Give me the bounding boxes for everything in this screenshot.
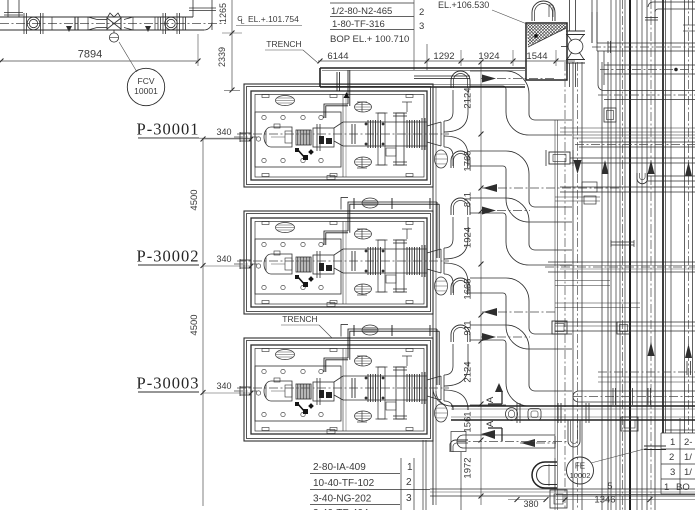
TRENCH label with leader (top) <box>265 39 318 63</box>
skid edge pads <box>262 222 269 225</box>
equipment box with cross-hatch wedge (top) <box>492 10 604 80</box>
double-rect fitting at (604,108) <box>604 108 616 122</box>
orifice flange on V7 <box>644 446 666 450</box>
svg-text:1665: 1665 <box>463 278 474 299</box>
svg-text:FE: FE <box>575 462 585 471</box>
instrument bubble FE 10002 <box>567 448 649 484</box>
trench outline around skid <box>244 338 433 441</box>
hatched drain oval on trench run <box>362 325 378 335</box>
drain valve handles (dark) <box>295 148 314 160</box>
valve V2 flanged <box>158 13 186 34</box>
pump baseplate <box>255 112 341 167</box>
pump skid box P-30003 <box>251 345 427 434</box>
U-bend pipe (south, opening right) <box>532 458 557 492</box>
svg-text:A: A <box>485 420 496 427</box>
vertical spool with end flanges <box>393 367 407 419</box>
pipe rack vertical run x=573..582 <box>573 62 582 510</box>
rack thin lines y=135/138 <box>573 135 695 138</box>
T-supports <box>357 102 412 168</box>
pipe rack heavy line x=663 <box>662 0 664 433</box>
discharge spool pipe <box>237 249 449 273</box>
expansion joint (multi-ring) <box>365 120 384 148</box>
pump baseplate <box>255 366 341 421</box>
valve V1 flanged (top-left run) <box>24 13 43 34</box>
vertical line x=461 bottom <box>460 452 462 510</box>
svg-text:EL.+.101.754: EL.+.101.754 <box>248 14 299 24</box>
svg-text:3-40-NG-202: 3-40-NG-202 <box>313 494 372 505</box>
svg-text:340: 340 <box>216 254 231 264</box>
elbow up at end of run <box>189 0 216 30</box>
svg-text:1765: 1765 <box>463 150 474 171</box>
svg-text:3: 3 <box>670 467 675 478</box>
coupling (hatched) <box>296 257 311 272</box>
T-supports <box>357 356 412 422</box>
header S-pipe skid2 lower -> rack <box>470 278 572 349</box>
svg-text:1292: 1292 <box>433 51 454 62</box>
pipe turndown cap (skid2 lower) <box>451 278 470 295</box>
pipe rack vertical run x=647..655 <box>647 0 655 510</box>
svg-text:1: 1 <box>407 462 413 473</box>
flange group 2 <box>407 247 420 275</box>
svg-text:10-40-TF-102: 10-40-TF-102 <box>313 478 375 489</box>
instrument bubble FCV 10001 <box>119 42 165 106</box>
rack horizontal band y=322..331 <box>555 322 695 331</box>
pipe rack heavy line x=630 <box>629 0 631 510</box>
flow arrow right (gap1) <box>481 207 530 215</box>
svg-text:1561: 1561 <box>463 411 474 432</box>
vent piping riser (dark small-bore) <box>324 70 350 118</box>
pipe turndown cap (skid1 upper) <box>451 71 470 88</box>
flange group 2 <box>407 374 420 402</box>
vertical spool 2 <box>376 113 388 165</box>
svg-text:7894: 7894 <box>78 49 102 61</box>
small box on bottom edge <box>327 430 335 434</box>
svg-text:BO: BO <box>676 482 690 493</box>
internal divider lines <box>342 95 344 178</box>
hatched drain oval at Y-branch <box>435 150 448 168</box>
pipe rack vertical stub x=592..597 (top) <box>592 0 597 43</box>
svg-text:911: 911 <box>463 320 474 335</box>
pump skid box P-30002 <box>251 218 427 307</box>
svg-text:P-30001: P-30001 <box>137 120 200 139</box>
motor M3 <box>264 378 292 401</box>
drain valve handles (dark) <box>295 275 314 287</box>
trench channel top (horizontal) <box>320 68 525 87</box>
capped pipe y=435..448 below skid3 <box>451 432 568 452</box>
svg-text:1/2-80-N2-465: 1/2-80-N2-465 <box>331 6 392 17</box>
pipe rack vertical run x=665..671 <box>666 0 672 433</box>
svg-text:2-80-IA-409: 2-80-IA-409 <box>313 462 366 473</box>
vent piping riser (dark small-bore) <box>324 198 439 259</box>
flange group 2 <box>407 120 420 148</box>
header S-pipe skid3 upper -> rack <box>470 325 572 406</box>
pump skid box P-30001 <box>251 91 427 180</box>
flange pair on spool <box>352 378 355 398</box>
inline fitting at (549,152) <box>546 150 573 166</box>
motor M2 <box>264 251 292 274</box>
suction stub to left <box>234 386 257 396</box>
flange pair <box>75 17 78 30</box>
svg-text:1544: 1544 <box>526 51 547 62</box>
svg-text:2: 2 <box>419 7 424 18</box>
vertical dimension chain (2124/1765/811/1924/1665/911/2124/1561/1972) <box>463 60 484 505</box>
small box below pipe <box>386 402 396 410</box>
T-supports <box>357 229 412 295</box>
small box on bottom edge <box>327 176 335 180</box>
svg-text:340: 340 <box>216 127 231 137</box>
svg-text:5: 5 <box>607 481 612 491</box>
vertical spool with end flanges <box>393 240 407 292</box>
TRENCH label with leader (middle) <box>281 314 332 338</box>
coupling (hatched) <box>296 384 311 399</box>
rounded-rect fitting on bottom run <box>528 409 541 421</box>
trench corner arcs into bottom run <box>433 388 451 406</box>
floor drain hatched ovals <box>276 223 295 233</box>
flange pair on spool <box>352 251 355 271</box>
discharge Y-branch skid 3 <box>427 344 468 410</box>
svg-text:10002: 10002 <box>570 471 591 480</box>
rack horizontal pipe y=262..272 <box>545 262 695 272</box>
pump P-30001 casing <box>313 124 334 151</box>
svg-text:2339: 2339 <box>217 47 227 67</box>
pipe main suction header (top-left horizontal run) <box>0 17 226 30</box>
vertical spool 2 <box>376 367 388 419</box>
pipe turndown cap (skid2 upper) <box>451 198 470 215</box>
rack thin lines y=128/132 <box>560 128 695 132</box>
line list table bottom-right <box>661 418 695 494</box>
section flag A (lower) <box>481 420 502 441</box>
oval fitting on bottom run <box>506 408 518 421</box>
flow arrow right (north gap) <box>481 75 556 83</box>
svg-text:EL.+106.530: EL.+106.530 <box>438 0 489 10</box>
svg-text:1346: 1346 <box>594 495 615 506</box>
pipe end bracket (450,440) <box>450 440 468 452</box>
svg-text:P-30003: P-30003 <box>137 374 200 393</box>
dimension 340 <box>203 254 253 268</box>
control valve FCV body with actuator <box>107 13 121 42</box>
svg-text:L: L <box>240 17 244 26</box>
svg-text:A: A <box>485 396 496 403</box>
support symbol arrow down 2 <box>145 26 151 32</box>
discharge Y-branch skid 2 <box>427 217 468 293</box>
rack horizontal pipe y=391..402 with end cap <box>573 388 695 405</box>
flange pair on spool <box>352 124 355 144</box>
svg-text:2: 2 <box>669 452 674 463</box>
bottom boundary lines y=489..496 <box>430 489 695 496</box>
floor drain hatched ovals <box>276 350 295 360</box>
line list table bottom-left <box>310 458 430 510</box>
flow arrow left (gap1) <box>482 184 620 192</box>
pump P-30002 casing <box>313 251 334 278</box>
small-bore pipes inside channel <box>414 76 470 79</box>
vertical pipe x=423 bottom <box>423 440 426 510</box>
rack horizontal pipe y=2..9 (top right corner) <box>645 2 695 31</box>
motor M1 <box>264 124 292 147</box>
header S-pipe skid2 upper -> rack <box>470 198 572 265</box>
svg-text:TRENCH: TRENCH <box>282 314 317 324</box>
bottom trench run y=406..420 <box>451 403 695 423</box>
svg-text:3: 3 <box>406 493 412 504</box>
discharge spool pipe <box>237 122 449 146</box>
svg-text:4500: 4500 <box>189 314 200 335</box>
svg-text:4500: 4500 <box>189 189 200 210</box>
discharge Y-branch skid 1 <box>427 90 468 166</box>
svg-text:FCV: FCV <box>138 76 155 86</box>
svg-text:1265: 1265 <box>218 3 228 23</box>
equipment label P-30001 <box>137 120 200 139</box>
pump P-30003 casing <box>313 378 334 405</box>
pipe rack vertical run x=684..692 <box>685 0 693 433</box>
rack thin pair y=303..307 <box>555 303 640 308</box>
pump baseplate <box>255 239 341 294</box>
svg-text:10001: 10001 <box>134 86 158 96</box>
svg-text:3: 3 <box>419 21 424 32</box>
svg-text:340: 340 <box>216 381 231 391</box>
hatched drain oval on trench run <box>362 198 378 208</box>
line list table top-center <box>330 0 427 70</box>
svg-text:TRENCH: TRENCH <box>266 39 301 49</box>
header S-pipe skid1 lower -> rack <box>470 151 572 222</box>
pipe rack vertical run x=611..616 <box>611 0 616 510</box>
vent piping riser (dark small-bore) <box>324 325 439 386</box>
valve cluster (582,182) <box>555 182 600 204</box>
rack horizontal pipe y=158..163 <box>570 158 695 163</box>
dimension row 6144 / 1292 / 1924 / 1544 <box>318 50 575 66</box>
trench outline around skid <box>244 84 433 187</box>
skid edge flange <box>422 245 425 277</box>
rack horizontal pipe y=176..181 <box>647 176 695 181</box>
rack dash bundle y=372..382 <box>598 361 695 382</box>
svg-text:P-30002: P-30002 <box>137 247 200 266</box>
svg-text:1924: 1924 <box>478 51 499 62</box>
floor drain hatched ovals <box>276 96 295 106</box>
suction stub to left <box>234 259 257 269</box>
nested square fitting bottom <box>550 490 567 508</box>
svg-text:1/: 1/ <box>684 467 692 478</box>
internal divider lines <box>342 222 344 305</box>
pipe rack vertical pair x=555 <box>555 120 558 510</box>
pipe turndown cap (skid1 lower) <box>451 151 470 168</box>
skid edge flange <box>422 118 425 150</box>
small box on bottom edge <box>327 303 335 307</box>
dimension chain 1265 / 2339 <box>217 0 242 92</box>
skid edge pads <box>262 95 269 98</box>
rack horizontal pipe y=43..51 <box>592 12 695 53</box>
hatched drain oval at Y-branch <box>435 404 448 422</box>
drain valve handles (dark) <box>295 402 314 414</box>
inline fitting at (552,321) <box>552 321 567 334</box>
reducer right <box>107 17 133 30</box>
pipe rack centerline x=565 <box>564 62 566 510</box>
svg-text:2124: 2124 <box>463 361 474 382</box>
suction stub to left <box>234 132 257 142</box>
flow arrow left (gap2) <box>482 308 556 316</box>
rack thin pair y=280..285 <box>555 281 610 286</box>
svg-text:6144: 6144 <box>327 51 348 62</box>
trench vertical walls at x=433 <box>433 84 436 505</box>
internal divider lines <box>342 349 344 432</box>
coupling (hatched) <box>296 130 311 145</box>
equipment label P-30002 <box>137 247 200 266</box>
header pipe skid3 lower -> bottom trench run <box>470 405 506 420</box>
vertical ball valve (top) <box>561 0 585 87</box>
dimension 340 <box>203 381 253 395</box>
U-turn cap on pipe (636,173) <box>637 173 648 184</box>
rack horizontal pipe y=140..149 <box>575 142 695 147</box>
svg-text:811: 811 <box>463 192 474 207</box>
elevation note EL.+.101.754 <box>236 14 302 26</box>
pipe vertical stub top-left <box>4 0 23 17</box>
equipment label P-30003 <box>137 374 200 393</box>
pipe rack vertical run x=602..608 <box>602 62 609 510</box>
dimension 340 <box>203 127 253 141</box>
rack thin pair y=242 <box>611 240 634 247</box>
dimension 7894 <box>0 34 200 66</box>
inline fitting at (619,324) <box>617 322 630 334</box>
skid edge flange <box>422 372 425 404</box>
skid edge pads <box>262 349 269 352</box>
rack horizontal pipe y=65..74 <box>600 65 695 74</box>
trench outline around skid <box>244 211 433 314</box>
vertical spool 2 <box>376 240 388 292</box>
expansion joint (multi-ring) <box>365 374 384 402</box>
expansion joint (multi-ring) <box>365 247 384 275</box>
inline fitting at (621,420) <box>621 417 638 431</box>
flow arrow left (below skid3) <box>520 439 556 447</box>
svg-text:2124: 2124 <box>463 87 474 108</box>
svg-text:1: 1 <box>664 482 669 493</box>
hatched drain oval at Y-branch <box>435 277 448 295</box>
header S-pipe skid1 upper -> rack <box>470 71 572 135</box>
small box below pipe <box>386 148 396 156</box>
bottom line y=494.5 <box>556 494 695 496</box>
section flag A (upper) <box>485 383 503 404</box>
vertical spool with end flanges <box>393 113 407 165</box>
pipe turndown cap (skid3 upper) <box>451 325 470 342</box>
vertical pipe with bottom U-turn at x=568 <box>568 420 580 447</box>
svg-text:BOP EL.+ 100.710: BOP EL.+ 100.710 <box>330 34 409 45</box>
svg-text:2-: 2- <box>684 437 692 448</box>
rack horizontal pipe y=187..192 <box>560 187 695 192</box>
rack horizontal pipe y=90..99 with z-elbow from above <box>598 51 695 100</box>
pipe rack vertical run x=620..625 <box>620 0 625 510</box>
svg-text:1972: 1972 <box>463 457 474 478</box>
discharge spool pipe <box>237 376 449 400</box>
flow arrow right (gap2) <box>481 333 530 341</box>
svg-text:1/: 1/ <box>684 452 692 463</box>
support symbol arrow down <box>66 26 72 32</box>
svg-text:1: 1 <box>670 437 675 448</box>
svg-text:2: 2 <box>406 477 412 488</box>
dimension chain 4500 x2 (vertical at x=203) <box>138 137 251 506</box>
pipe rack vertical run x=637..642 <box>637 0 642 510</box>
svg-text:1924: 1924 <box>463 227 474 248</box>
reducer left <box>88 17 107 30</box>
small box below pipe <box>386 275 396 283</box>
U-bend pipe above box <box>532 1 555 21</box>
dimension 380 / 1346 / 5 <box>508 481 695 509</box>
svg-text:380: 380 <box>523 499 538 509</box>
svg-text:1-80-TF-316: 1-80-TF-316 <box>332 19 385 30</box>
